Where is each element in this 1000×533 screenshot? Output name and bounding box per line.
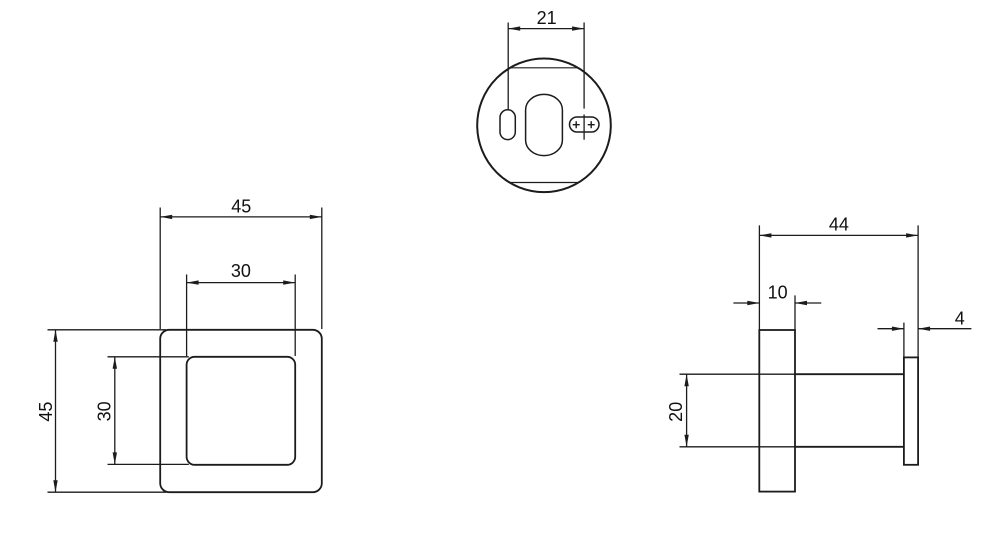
svg-text:45: 45 — [231, 197, 251, 217]
svg-text:10: 10 — [768, 283, 788, 303]
svg-text:44: 44 — [829, 215, 849, 235]
svg-text:4: 4 — [955, 309, 965, 329]
svg-text:45: 45 — [36, 402, 56, 422]
svg-text:21: 21 — [537, 8, 557, 28]
svg-text:30: 30 — [231, 261, 251, 281]
svg-text:30: 30 — [94, 401, 114, 421]
svg-text:20: 20 — [666, 402, 686, 422]
